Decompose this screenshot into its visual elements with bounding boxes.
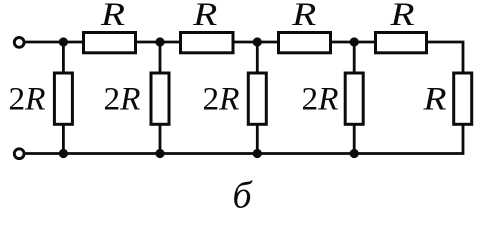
junction node A top	[59, 37, 68, 46]
junction node D bottom	[350, 149, 359, 158]
svg-text:R: R	[100, 0, 125, 33]
resistor R2 series body	[181, 33, 234, 53]
svg-text:2R: 2R	[9, 82, 46, 118]
svg-text:R: R	[291, 0, 316, 33]
svg-text:2R: 2R	[103, 82, 140, 118]
svg-text:2R: 2R	[302, 82, 339, 118]
wire shunt branch node D	[353, 42, 356, 154]
svg-text:R: R	[422, 82, 446, 118]
resistor R9 terminating R body	[454, 73, 472, 124]
svg-text:R: R	[192, 0, 217, 33]
wire shunt branch node B	[159, 42, 162, 154]
junction node B top	[155, 37, 164, 46]
resistor R6 shunt 2R body	[151, 73, 169, 124]
junction node A bottom	[59, 149, 68, 158]
svg-text:б: б	[232, 175, 253, 212]
svg-text:R: R	[389, 0, 414, 33]
svg-text:2R: 2R	[203, 82, 240, 118]
resistor R3 series body	[279, 33, 331, 53]
resistor R7 shunt 2R body	[248, 73, 266, 124]
junction node D top	[350, 37, 359, 46]
wire top rail with right corner drop	[26, 42, 464, 73]
terminal bottom-left input	[14, 149, 24, 159]
resistor R8 shunt 2R body	[345, 73, 363, 124]
resistor R4 series body	[376, 33, 427, 53]
junction node C top	[253, 37, 262, 46]
wire bottom rail with right corner rise	[26, 125, 464, 154]
wire shunt branch node C	[256, 42, 259, 154]
terminal top-left input	[14, 38, 24, 48]
wire shunt branch node A	[62, 42, 65, 154]
junction node B bottom	[155, 149, 164, 158]
resistor R1 series body	[84, 33, 136, 53]
junction node C bottom	[253, 149, 262, 158]
resistor R5 shunt 2R body	[54, 73, 72, 124]
